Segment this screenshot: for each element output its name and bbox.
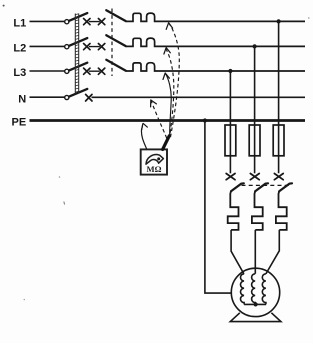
svg-text:N: N (18, 93, 26, 105)
svg-text:L1: L1 (13, 18, 26, 30)
svg-text:MΩ: MΩ (147, 164, 162, 174)
svg-text:L2: L2 (13, 43, 26, 55)
svg-text:L3: L3 (13, 67, 26, 79)
svg-text:PE: PE (12, 117, 27, 129)
